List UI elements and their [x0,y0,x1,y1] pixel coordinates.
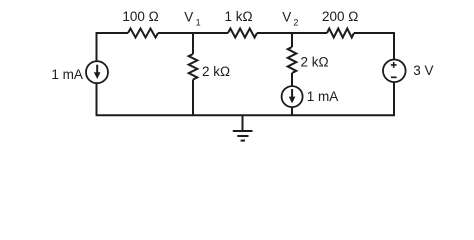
wire left vertical lower [96,83,98,115]
voltage source V3 circle [383,60,406,83]
ground bar 3 [241,140,245,142]
wire V2 branch upper [291,33,293,47]
wire top between R100 and R1k [158,32,228,34]
svg-text:1: 1 [196,18,201,28]
svg-text:1 mA: 1 mA [307,89,339,104]
wire right vertical upper [393,33,395,59]
ground bar 2 [237,135,248,137]
wire V1 branch upper [192,33,194,54]
current source I1 circle [86,61,108,83]
svg-text:3 V: 3 V [413,63,433,78]
voltage source minus sign [391,76,397,78]
svg-text:V: V [282,9,291,24]
svg-text:2 kΩ: 2 kΩ [301,55,329,70]
svg-text:2: 2 [293,18,298,28]
svg-text:200 Ω: 200 Ω [322,9,358,24]
resistor 200 ohm [327,29,354,38]
wire bottom [96,114,395,116]
wire V1 branch lower [192,80,194,116]
resistor 2 kohm (V2 branch) [288,47,297,73]
resistor 1 kohm [228,29,257,38]
resistor 100 ohm [128,29,158,38]
wire right vertical lower [393,82,395,115]
svg-text:2 kΩ: 2 kΩ [202,64,230,79]
svg-text:1 mA: 1 mA [51,67,83,82]
wire V2 branch middle [291,73,293,86]
voltage source plus sign [391,62,397,68]
wire top between R1k and R200 [257,32,327,34]
ground stub [242,115,244,131]
ground bar 1 [233,130,253,132]
wire V2 branch lower [291,107,293,115]
svg-text:100 Ω: 100 Ω [122,9,158,24]
current source I2 circle [282,86,303,107]
current source I1 arrow [96,65,98,74]
wire left vertical upper [96,33,98,61]
resistor 2 kohm (V1 branch) [189,54,198,80]
svg-text:1 kΩ: 1 kΩ [225,9,253,24]
svg-text:V: V [184,9,193,24]
current source I2 arrow [291,89,293,97]
wire top-left segment [96,32,128,34]
wire top-right segment [354,32,395,34]
